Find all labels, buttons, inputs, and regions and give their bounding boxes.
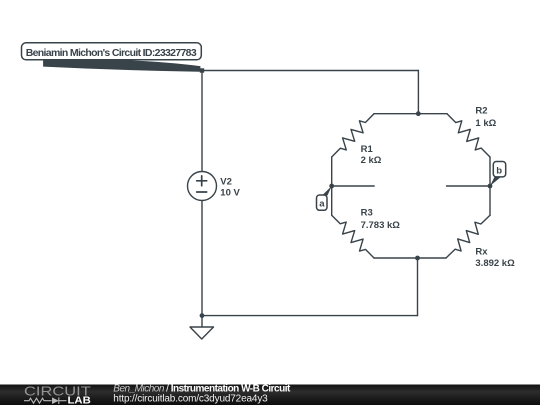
wire bridge right vertical bbox=[489, 157, 491, 215]
junction bridge bottom node bbox=[415, 256, 420, 261]
svg-text:Beniamin Michon's Circuit ID:2: Beniamin Michon's Circuit ID:23327783 bbox=[26, 47, 197, 59]
label Rx value bbox=[475, 247, 515, 269]
label R3 value bbox=[361, 208, 401, 231]
resistor Rx bbox=[446, 215, 490, 258]
wire bridge left vertical bbox=[331, 157, 333, 215]
logo schematic glyph bbox=[24, 397, 67, 404]
svg-text:1 kΩ: 1 kΩ bbox=[475, 118, 496, 129]
wire source bottom to ground node bbox=[201, 201, 203, 316]
wire node a stub bbox=[332, 185, 375, 187]
svg-text:7.783 kΩ: 7.783 kΩ bbox=[361, 220, 401, 231]
svg-text:V2: V2 bbox=[220, 176, 232, 187]
junction callout attach node bbox=[200, 68, 204, 72]
wire bottom horizontal bbox=[202, 315, 418, 317]
svg-text:http://circuitlab.com/c3dyud72: http://circuitlab.com/c3dyud72ea4y3 bbox=[113, 393, 268, 404]
wire left vertical to source bbox=[201, 71, 203, 172]
svg-text:LAB: LAB bbox=[68, 395, 92, 405]
callout Beniamin Michon's Circuit ID bbox=[22, 43, 202, 72]
ground bbox=[190, 316, 214, 339]
label R2 value bbox=[475, 106, 496, 129]
svg-text:3.892 kΩ: 3.892 kΩ bbox=[475, 258, 515, 269]
svg-text:R1: R1 bbox=[361, 144, 374, 155]
junction ground node bbox=[200, 313, 205, 318]
resistor R2 bbox=[447, 114, 490, 157]
svg-text:R3: R3 bbox=[361, 208, 373, 219]
wire node b stub bbox=[447, 185, 491, 187]
label R1 value bbox=[361, 144, 382, 166]
junction bridge top node bbox=[416, 111, 421, 116]
junction node a bbox=[329, 184, 334, 189]
voltage source V2 bbox=[188, 172, 217, 201]
label V2 value bbox=[220, 176, 240, 198]
svg-text:10 V: 10 V bbox=[220, 188, 240, 199]
node a flag bbox=[317, 186, 332, 210]
svg-text:b: b bbox=[496, 165, 502, 176]
junction node b bbox=[488, 184, 493, 189]
wire bridge bottom vertical bbox=[417, 258, 419, 316]
svg-text:a: a bbox=[319, 199, 325, 210]
svg-text:2 kΩ: 2 kΩ bbox=[361, 155, 382, 166]
wire top horizontal bbox=[202, 70, 418, 72]
resistor R1 bbox=[332, 114, 374, 157]
wire bridge bottom inner horizontal bbox=[374, 257, 446, 259]
node b flag bbox=[490, 162, 506, 187]
wire bridge top horizontal bbox=[374, 113, 447, 115]
svg-text:Rx: Rx bbox=[475, 247, 488, 258]
footer bar bbox=[0, 385, 540, 405]
resistor R3 bbox=[332, 215, 374, 258]
svg-text:R2: R2 bbox=[475, 106, 487, 117]
wire top right vertical bbox=[417, 71, 419, 114]
